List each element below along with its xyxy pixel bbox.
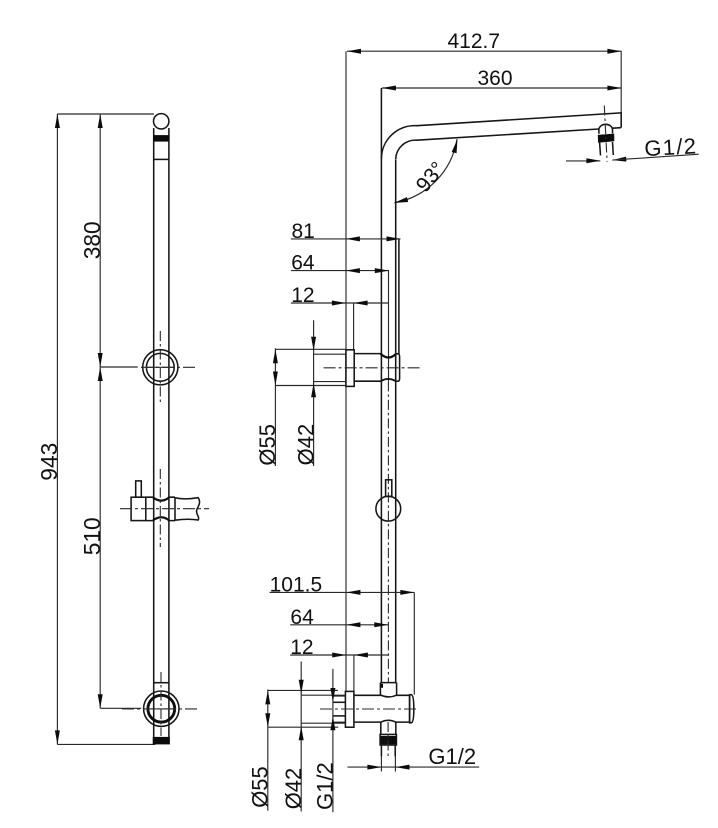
dim O55 upper xyxy=(273,348,346,466)
upper wall bracket outer circle xyxy=(143,350,178,385)
slider right grip xyxy=(175,498,200,521)
dim G1/2 outlet xyxy=(348,756,480,772)
svg-text:Ø55: Ø55 xyxy=(248,766,273,808)
lower housing body xyxy=(354,695,410,722)
svg-text:G1/2: G1/2 xyxy=(428,744,476,769)
lower housing right cap xyxy=(410,695,414,723)
svg-text:Ø42: Ø42 xyxy=(293,424,318,466)
dim 380/510 line xyxy=(98,114,103,708)
arm outer bend xyxy=(381,113,621,159)
head nut xyxy=(598,134,615,143)
slider mid divider xyxy=(174,497,176,520)
rail top cap circle xyxy=(154,114,169,129)
rail tube xyxy=(154,128,169,737)
dim O42 upper xyxy=(311,320,346,466)
angle arc 93 xyxy=(393,138,460,205)
svg-text:81: 81 xyxy=(292,220,315,243)
sleeve right edge xyxy=(398,240,400,355)
svg-text:Ø42: Ø42 xyxy=(281,768,306,810)
arm end face / 412.7 ext xyxy=(620,51,622,112)
ext line top xyxy=(57,113,154,115)
dim 64 upper xyxy=(291,268,389,273)
ext line lower circle xyxy=(100,707,141,709)
svg-text:101.5: 101.5 xyxy=(270,573,323,596)
lower housing centerline xyxy=(320,708,417,710)
riser centerline solid upper xyxy=(388,271,390,382)
slider left box xyxy=(131,497,146,520)
svg-text:943: 943 xyxy=(36,443,62,481)
slider horizontal centerline xyxy=(120,508,209,510)
collar notch xyxy=(381,684,383,688)
svg-text:412.7: 412.7 xyxy=(448,30,501,53)
ext line flange right lower xyxy=(353,655,355,691)
dim 360 xyxy=(382,86,622,91)
riser centerline dashed xyxy=(387,381,389,682)
svg-text:12: 12 xyxy=(291,284,314,307)
dim G1/2 inlet xyxy=(330,669,335,812)
dim 64 lower xyxy=(290,622,388,627)
dim 12 upper xyxy=(291,301,389,306)
slider tab xyxy=(136,481,142,497)
dim G1/2 head xyxy=(566,154,699,163)
wall thread ticks xyxy=(333,696,345,723)
lower bracket horizontal centerline xyxy=(122,708,198,710)
dim 81 xyxy=(291,236,401,241)
slider ball xyxy=(376,496,401,521)
upper bracket horizontal centerline xyxy=(141,366,197,368)
upper housing centerline xyxy=(324,367,421,369)
rail joint line lower xyxy=(154,682,169,684)
svg-text:64: 64 xyxy=(291,252,315,275)
head dome xyxy=(599,124,613,133)
upper wall bracket inner circle xyxy=(146,353,174,381)
dim 12 lower xyxy=(290,653,388,658)
ext line bottom xyxy=(57,743,155,745)
dim O55 lower xyxy=(265,689,338,810)
dim 943 line xyxy=(55,114,60,744)
outlet stub xyxy=(381,722,396,756)
lower housing flange xyxy=(345,691,354,727)
ext line flange right upper xyxy=(353,303,355,350)
svg-text:380: 380 xyxy=(79,221,105,259)
svg-text:360: 360 xyxy=(478,67,513,90)
upper housing flange xyxy=(346,350,354,387)
arm inner bend xyxy=(396,129,599,159)
outlet centerline xyxy=(387,722,389,757)
riser pipe left edge / 360 ext xyxy=(380,88,382,683)
head centerline xyxy=(604,106,607,162)
svg-text:G1/2: G1/2 xyxy=(313,762,338,810)
ext line mid circle xyxy=(100,366,138,368)
dim 101.5 xyxy=(270,590,415,595)
lower wall bracket outer circle xyxy=(144,691,179,726)
arm bottom edge right part xyxy=(613,127,621,130)
lower collar xyxy=(380,683,396,697)
lower wall bracket inner ring xyxy=(148,695,175,722)
dim O42 lower xyxy=(299,662,346,812)
upper housing body xyxy=(354,354,399,382)
ext line housing right end xyxy=(413,592,415,694)
svg-text:G1/2: G1/2 xyxy=(644,133,698,161)
outlet band xyxy=(380,734,396,745)
dim 412.7 xyxy=(347,49,621,54)
rail joint line upper xyxy=(154,158,169,160)
slider mid body xyxy=(146,497,175,520)
rail bottom cap xyxy=(153,737,170,745)
head thread stub xyxy=(600,142,614,155)
slider ball pin xyxy=(386,480,392,497)
riser pipe right edge xyxy=(395,160,397,683)
lower bracket vertical centerline xyxy=(160,672,162,736)
svg-text:Ø55: Ø55 xyxy=(255,424,280,466)
svg-text:64: 64 xyxy=(290,606,314,629)
rail top band xyxy=(153,135,169,142)
svg-text:510: 510 xyxy=(79,517,105,555)
wall reference line xyxy=(345,51,347,691)
upper bracket vertical centerline xyxy=(159,331,161,403)
svg-text:12: 12 xyxy=(290,636,313,659)
slider vertical centerline xyxy=(159,469,161,547)
